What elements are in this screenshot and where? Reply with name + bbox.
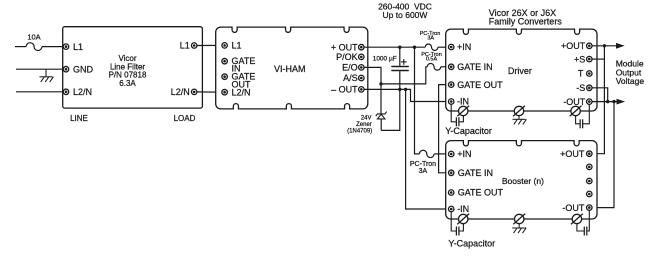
svg-text:3A: 3A	[419, 168, 428, 175]
svg-text:L2/N: L2/N	[171, 87, 190, 97]
svg-text:0.5A: 0.5A	[426, 57, 438, 63]
svg-text:Up to 600W: Up to 600W	[383, 10, 428, 20]
line filter module FL1 (Vicor Line Filter P/N 07818)	[63, 27, 203, 108]
svg-text:Zener: Zener	[356, 122, 372, 128]
terminal U1 E/O	[359, 65, 365, 71]
capacitor CY3 (booster left Y-cap)	[451, 212, 463, 236]
wire F1 to filter L1	[42, 46, 64, 48]
terminal U1 GATE OUT	[222, 74, 228, 80]
svg-text:GATE OUT: GATE OUT	[457, 80, 503, 90]
wire -OUT bus down to booster -OUT	[592, 102, 614, 208]
capacitor C1 1000 uF	[391, 47, 409, 89]
svg-text:+S: +S	[574, 54, 585, 64]
svg-text:VI-HAM: VI-HAM	[274, 64, 306, 74]
junction -OUT/booster	[612, 100, 615, 103]
junction -S/-OUT	[606, 100, 609, 103]
svg-text:-S: -S	[576, 83, 585, 93]
terminal U3 aux1	[587, 164, 593, 170]
terminal U3 GATE IN	[448, 170, 454, 176]
ground U2 baseplate (chassis ground)	[513, 116, 527, 125]
terminal U3 +OUT	[587, 151, 593, 157]
terminal U2 GATE OUT	[448, 82, 454, 88]
wire +OUT rail to fuse F2	[364, 46, 425, 48]
terminal U1 L1	[222, 43, 228, 49]
terminal U1 -OUT	[359, 87, 365, 93]
svg-text:1000 µF: 1000 µF	[373, 56, 397, 63]
screw U3-3 (baseplate screw)	[571, 214, 583, 224]
svg-text:-IN: -IN	[457, 204, 469, 214]
wire +OUT bus down to booster +OUT	[592, 46, 604, 154]
svg-text:P/OK: P/OK	[336, 52, 358, 62]
ground U3 baseplate (chassis ground)	[512, 224, 526, 234]
svg-text:L1: L1	[73, 42, 83, 52]
junction -OUT/C1/D1	[398, 88, 401, 91]
capacitor CY2 (driver right Y-cap)	[576, 104, 590, 128]
capacitor CY1 (driver left Y-cap)	[451, 104, 463, 126]
svg-text:Y-Capacitor: Y-Capacitor	[445, 126, 492, 136]
module U1 VI-HAM	[216, 27, 368, 109]
svg-text:+OUT: +OUT	[560, 149, 585, 159]
terminal FL1 L1 (line)	[63, 44, 69, 50]
junction +OUT/+S/booster	[603, 44, 606, 47]
fuse F1 10A	[26, 43, 42, 51]
svg-text:+ OUT: + OUT	[331, 42, 358, 52]
terminal U1 A/S	[359, 75, 365, 81]
terminal FL1 L2/N (line)	[63, 89, 69, 95]
arrow module output +	[616, 43, 625, 49]
svg-text:-IN: -IN	[457, 97, 469, 107]
fuse F4 PC-Tron 3A (booster +IN)	[419, 150, 434, 157]
svg-text:10A: 10A	[27, 33, 40, 42]
terminal U1 L2/N	[222, 89, 228, 95]
svg-text:GATE IN: GATE IN	[458, 168, 493, 178]
wire driver +OUT to arrow	[592, 45, 617, 47]
terminal U3 GATE OUT	[448, 190, 454, 196]
wire E/O run to fuse F3	[381, 67, 427, 84]
terminal FL1 L1 (load)	[191, 43, 197, 49]
terminal U2 T	[587, 71, 593, 77]
svg-text:Y-Capacitor: Y-Capacitor	[448, 238, 495, 248]
screw U2-2 (baseplate screw)	[513, 106, 525, 116]
svg-text:6.3A: 6.3A	[119, 79, 136, 88]
terminal U3 -IN	[448, 206, 454, 212]
svg-text:T: T	[578, 69, 584, 79]
svg-text:A/S: A/S	[343, 73, 358, 83]
terminal FL1 L2/N (load)	[191, 89, 197, 95]
zener diode D1 24V 1N4709	[376, 84, 387, 130]
wire +S tie	[592, 58, 604, 60]
junction +rail/C1	[398, 46, 401, 49]
terminal U3 aux3	[587, 191, 593, 197]
module U2 Driver	[446, 29, 597, 111]
screw U3-2 (baseplate screw)	[513, 214, 525, 224]
svg-text:Voltage: Voltage	[616, 76, 645, 86]
wire -OUT rail jog to driver -IN	[364, 89, 449, 101]
wire driver -OUT to arrow	[592, 101, 617, 103]
svg-text:3A: 3A	[427, 36, 434, 42]
svg-text:Driver: Driver	[508, 66, 532, 76]
svg-text:Family Converters: Family Converters	[489, 16, 563, 26]
screw U3-1 (baseplate screw)	[457, 214, 469, 224]
terminal U3 aux2	[587, 178, 593, 184]
screw U2-1 (baseplate screw)	[457, 106, 469, 116]
terminal U3 +IN	[448, 151, 454, 157]
terminal U2 -IN	[448, 99, 454, 105]
svg-text:GATE OUT: GATE OUT	[458, 188, 504, 198]
wire +rail down to booster fuse F4	[415, 47, 420, 154]
terminal FL1 GND	[63, 66, 69, 72]
terminal U2 -S	[587, 85, 593, 91]
svg-text:+IN: +IN	[457, 42, 471, 52]
terminal U1 P/OK	[359, 54, 365, 60]
terminal U2 +S	[587, 56, 593, 62]
wire -S tie	[592, 88, 608, 102]
wire E/O jog down	[364, 67, 381, 84]
terminal U2 +OUT	[587, 43, 593, 49]
label C1 polarity +	[401, 59, 407, 65]
svg-text:24V: 24V	[361, 115, 372, 121]
terminal U1 +OUT	[359, 44, 365, 50]
terminal U1 GATE IN	[222, 58, 228, 64]
ground input earth (chassis ground)	[39, 69, 53, 82]
screw U2-3 (baseplate screw)	[570, 106, 582, 116]
wire filter L1 to VI-HAM L1	[197, 44, 222, 46]
svg-text:L1: L1	[180, 41, 190, 51]
svg-text:GATE IN: GATE IN	[457, 62, 492, 72]
svg-text:E/O: E/O	[342, 63, 358, 73]
wire D1 return to -OUT	[381, 89, 400, 130]
svg-text:L1: L1	[232, 41, 242, 51]
junction -rail/booster feed	[404, 88, 407, 91]
terminal U2 +IN	[448, 44, 454, 50]
wire driver GATE OUT to booster GATE IN	[439, 85, 449, 173]
module U3 Booster	[446, 141, 597, 219]
arrow module output -	[617, 99, 626, 105]
svg-text:(1N4709): (1N4709)	[347, 129, 372, 135]
wire F2 to driver +IN	[438, 46, 449, 48]
svg-text:– OUT: – OUT	[331, 85, 358, 95]
terminal U3 -OUT	[587, 205, 593, 211]
svg-text:-OUT: -OUT	[562, 203, 584, 213]
svg-text:+OUT: +OUT	[561, 41, 586, 51]
fuse F3 PC-Tron 0.5A (gate in)	[427, 63, 440, 70]
svg-text:+IN: +IN	[457, 149, 471, 159]
capacitor CY4 (booster right Y-cap)	[577, 210, 589, 235]
wire filter L2/N to VI-HAM L2/N	[197, 91, 222, 93]
svg-text:Booster (n): Booster (n)	[502, 176, 544, 186]
svg-text:L2/N: L2/N	[232, 88, 251, 98]
wire AC GND input	[16, 68, 63, 70]
wire F4 to booster +IN	[434, 153, 448, 155]
svg-text:GND: GND	[73, 64, 94, 74]
junction +rail/booster feed	[413, 46, 416, 49]
fuse F2 PC-Tron 3A (driver +IN)	[425, 44, 438, 50]
wire AC L1 input stub	[15, 46, 26, 48]
wire -rail down to booster -IN	[406, 89, 449, 209]
wire AC L2/N input	[16, 91, 63, 93]
svg-text:L2/N: L2/N	[73, 87, 92, 97]
wire F3 to driver GATE IN	[441, 66, 449, 68]
junction E/O node	[379, 82, 382, 85]
svg-text:-OUT: -OUT	[563, 97, 585, 107]
svg-text:LOAD: LOAD	[174, 114, 196, 123]
terminal U2 -OUT	[587, 99, 593, 105]
svg-text:PC-Tron: PC-Tron	[410, 161, 436, 168]
svg-text:LINE: LINE	[70, 114, 88, 123]
terminal U2 GATE IN	[448, 64, 454, 70]
